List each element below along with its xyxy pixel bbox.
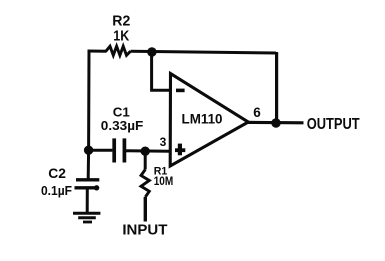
resistor R1 <box>141 170 149 198</box>
node junction 3 (R1 tap) <box>141 147 150 156</box>
svg-text:6: 6 <box>253 105 261 120</box>
ground <box>73 213 100 222</box>
op-amp inverting input minus sign <box>176 89 185 93</box>
svg-text:LM110: LM110 <box>182 110 223 126</box>
capacitor C2 <box>75 180 100 191</box>
wire node 3 down to R1 <box>144 151 147 169</box>
node junction output <box>271 118 280 127</box>
wire top horizontal to right corner <box>131 51 277 53</box>
wire C1 to noninverting input <box>126 149 170 153</box>
svg-text:OUTPUT: OUTPUT <box>307 116 360 133</box>
wire feedback to inverting input <box>152 51 170 90</box>
svg-text:1K: 1K <box>113 28 129 44</box>
svg-text:C2: C2 <box>48 166 66 181</box>
wire C2 to ground <box>86 188 89 213</box>
svg-text:10M: 10M <box>154 175 174 188</box>
svg-text:INPUT: INPUT <box>122 223 167 239</box>
op-amp U1 LM110 <box>170 74 248 167</box>
svg-text:0.33µF: 0.33µF <box>101 118 144 133</box>
wire right vertical feedback <box>275 52 277 123</box>
node junction left (C1/C2 tap) <box>84 146 93 155</box>
svg-text:3: 3 <box>160 135 167 149</box>
resistor R2 <box>106 46 131 55</box>
wire left vertical <box>87 50 91 179</box>
svg-text:R2: R2 <box>112 13 130 29</box>
node junction top (R2 right / feedback tap) <box>147 47 156 56</box>
svg-text:0.1µF: 0.1µF <box>41 183 72 198</box>
wire left node to C1 <box>89 149 113 152</box>
wire top-left horizontal segment <box>88 50 107 53</box>
wire R1 to input terminal <box>144 197 147 222</box>
wire output <box>248 121 304 125</box>
op-amp noninverting input plus sign <box>175 144 185 156</box>
capacitor C1 <box>114 138 124 162</box>
